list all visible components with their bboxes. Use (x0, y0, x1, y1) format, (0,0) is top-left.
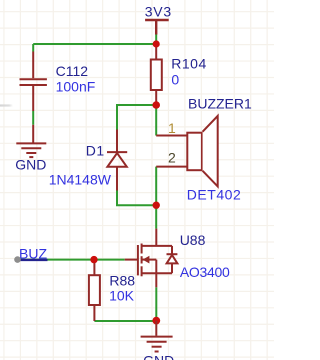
resistor R104 (155, 44, 157, 105)
svg-text:GND: GND (15, 157, 46, 173)
resistor R88 (93, 260, 95, 321)
diode D1 (107, 130, 127, 191)
wire top rail (33, 43, 156, 45)
mosfet arrow (143, 256, 150, 264)
node A junction (3V3/R104) (153, 40, 160, 47)
wire cap bottom to ground (32, 111, 34, 125)
svg-text:1: 1 (168, 120, 176, 136)
wire bottom rail (94, 320, 156, 322)
svg-text:GND: GND (143, 353, 174, 360)
net label BUZ underline (19, 259, 48, 261)
wire node B to D1 (117, 105, 156, 130)
svg-text:2: 2 (168, 150, 176, 166)
wire end dot (14, 256, 21, 263)
capacitor C112 (20, 52, 47, 112)
transistor U88 MOSFET (125, 229, 172, 288)
power flag 3V3 (145, 20, 169, 35)
buzzer BUZZER1 (156, 135, 187, 137)
svg-text:U88: U88 (180, 232, 206, 248)
svg-text:R88: R88 (109, 273, 135, 289)
wire D1 anode to node C (117, 191, 156, 206)
wire node B to buzzer pin1 (155, 105, 157, 136)
ground bottom (141, 321, 173, 352)
wire node C to drain (155, 205, 157, 228)
svg-text:C112: C112 (56, 63, 89, 79)
svg-text:AO3400: AO3400 (180, 264, 230, 280)
svg-text:1N4148W: 1N4148W (49, 171, 112, 187)
wire buzzer pin2 to node C (155, 167, 157, 206)
node B junction (R104/D1/pin1) (152, 101, 160, 109)
wire source to node D (155, 287, 157, 320)
svg-text:D1: D1 (86, 143, 105, 159)
wire BUZ net (18, 259, 125, 261)
node D junction (source/R88/GND) (152, 317, 160, 325)
svg-text:10K: 10K (109, 288, 135, 304)
svg-text:3V3: 3V3 (145, 4, 172, 20)
ground left (16, 125, 46, 157)
wire cap top (32, 44, 34, 52)
body diode (167, 253, 178, 255)
svg-text:DET402: DET402 (187, 187, 242, 203)
node C junction (D1/pin2/drain) (153, 202, 160, 209)
wire 3V3 stub (155, 35, 157, 45)
screen-edge artifact (0, 104, 13, 106)
node E junction (BUZ/R88/gate) (90, 256, 97, 263)
svg-text:BUZZER1: BUZZER1 (188, 96, 252, 112)
svg-text:0: 0 (171, 72, 179, 88)
svg-text:R104: R104 (171, 56, 207, 72)
svg-text:100nF: 100nF (56, 79, 96, 95)
